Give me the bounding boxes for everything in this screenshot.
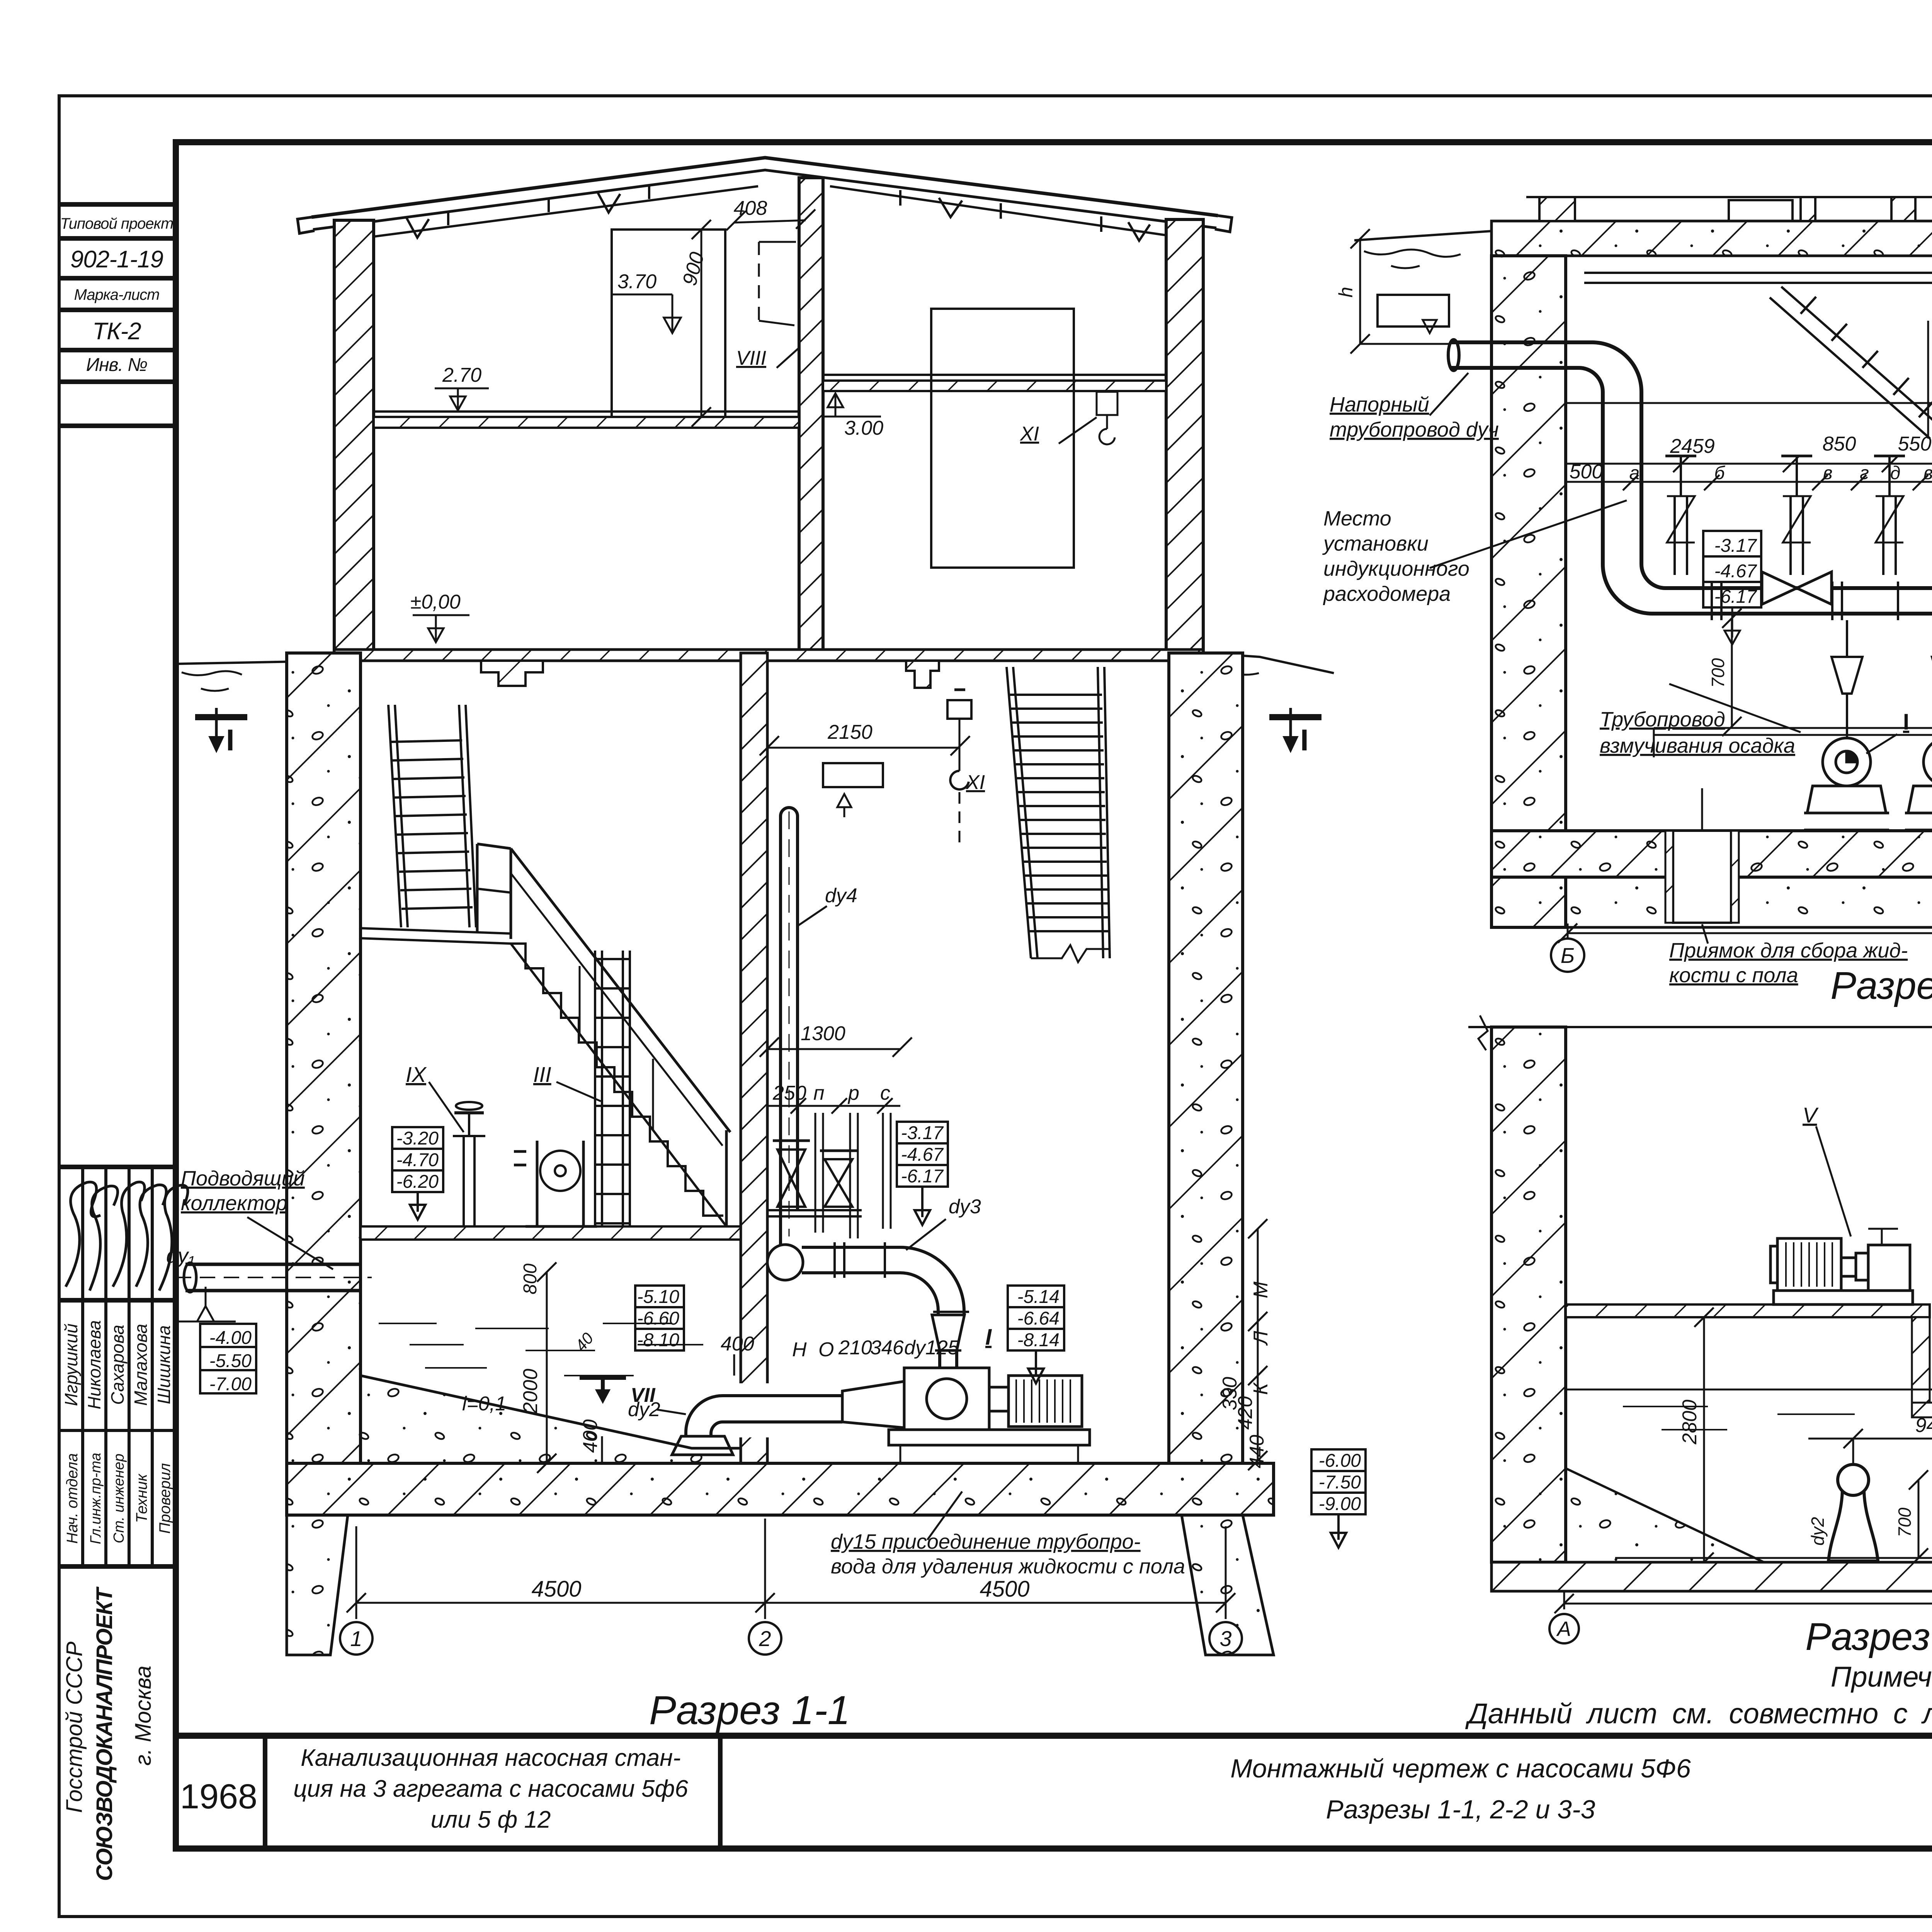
elevation boxes section 1-1: [200, 1122, 1366, 1548]
svg-text:Разрез 3-3: Разрез 3-3: [1805, 1615, 1932, 1658]
pipe to pump: [938, 1350, 941, 1368]
svg-text:dy3: dy3: [949, 1196, 981, 1218]
arrows below boxes: [417, 1192, 419, 1212]
svg-text:±0,00: ±0,00: [410, 591, 461, 613]
svg-text:индукционного: индукционного: [1323, 557, 1469, 580]
svg-text:400: 400: [721, 1333, 754, 1355]
svg-text:Шишкина: Шишкина: [154, 1325, 174, 1404]
top break line: [1468, 1026, 1932, 1028]
dy15 note: [831, 1530, 1185, 1578]
svg-text:1300: 1300: [801, 1022, 845, 1045]
dy4 vertical pipe: [767, 808, 969, 1368]
svg-text:СОЮЗВОДОКАНАЛПРОЕКТ: СОЮЗВОДОКАНАЛПРОЕКТ: [92, 1586, 117, 1881]
svg-text:р: р: [847, 1082, 859, 1104]
stirring pipe: [1654, 728, 1932, 757]
9000 + grid: [1549, 1591, 1932, 1643]
svg-text:700: 700: [1895, 1507, 1915, 1537]
discharge elbow circle: [767, 1245, 803, 1280]
±0.00 flag: [413, 614, 469, 616]
roof bottom chord: [336, 186, 758, 241]
gate valves on risers: [777, 1150, 805, 1179]
flange ticks on manifold: [1712, 582, 1932, 620]
svg-text:Разрез 1-1: Разрез 1-1: [649, 1688, 850, 1733]
svg-text:Приямок для сбора жид-: Приямок для сбора жид-: [1669, 939, 1908, 962]
3.00 flag up: [823, 416, 881, 418]
beams under slab: [481, 661, 543, 686]
-4.00 flag: [197, 1306, 214, 1321]
svg-text:-3.20: -3.20: [396, 1128, 439, 1149]
h dims sides: [1350, 229, 1932, 354]
svg-text:946: 946: [1915, 1414, 1932, 1437]
svg-text:Игрушкий: Игрушкий: [61, 1323, 81, 1406]
risers with gate valves: [1665, 456, 1932, 575]
XI hoist right room: [1097, 392, 1117, 415]
svg-text:п: п: [813, 1082, 825, 1104]
svg-text:XI: XI: [966, 771, 985, 794]
flight B railing: [511, 849, 730, 1132]
svg-text:IX: IX: [406, 1062, 427, 1087]
svg-text:Малахова: Малахова: [131, 1324, 151, 1406]
risers п р с: [815, 1113, 816, 1233]
floor slab: [1492, 1562, 1932, 1591]
VII mark: [601, 1379, 605, 1395]
roof truss V marks: [406, 216, 429, 238]
svg-text:Техник: Техник: [133, 1473, 150, 1523]
svg-text:dy125: dy125: [904, 1337, 959, 1359]
svg-text:420: 420: [1234, 1396, 1257, 1430]
svg-text:Место: Место: [1323, 507, 1391, 530]
labels I I II: [1903, 694, 1932, 735]
dims near pumps: [1722, 609, 1932, 831]
svg-text:взмучивания осадка: взмучивания осадка: [1600, 734, 1795, 757]
motor unit V: [1766, 1126, 1920, 1304]
svg-text:г. Москва: г. Москва: [131, 1665, 156, 1765]
pressure pipework (thick): [1448, 340, 1932, 614]
svg-text:-5.10: -5.10: [637, 1287, 680, 1307]
svg-text:-7.00: -7.00: [209, 1374, 252, 1395]
svg-text:Трубопровод: Трубопровод: [1600, 708, 1725, 731]
section mark I right: [1289, 708, 1292, 750]
VIII leader: [777, 348, 799, 368]
svg-text:-3.17: -3.17: [901, 1123, 944, 1143]
svg-text:I: I: [1903, 709, 1909, 735]
inlet pipe Подводящий коллектор: [176, 1263, 372, 1292]
svg-text:850: 850: [1823, 433, 1856, 455]
ground slab: [334, 650, 1203, 661]
wall footing wedges: [287, 1515, 348, 1655]
svg-text:А: А: [1556, 1617, 1571, 1641]
right basement wall: [1169, 653, 1243, 1515]
svg-text:Разрезы 1-1, 2-2 и 3-3: Разрезы 1-1, 2-2 и 3-3: [1326, 1795, 1595, 1824]
svg-text:-6.17: -6.17: [901, 1166, 944, 1187]
right wall: [1166, 219, 1203, 651]
top slab: [1354, 197, 1932, 268]
svg-text:700: 700: [1708, 658, 1728, 688]
floor + slab: [1492, 831, 1932, 927]
cable drum: [536, 1141, 539, 1226]
right room stair (frontal): [1007, 667, 1110, 962]
eaves: [298, 217, 315, 233]
svg-text:Л: Л: [1250, 1331, 1272, 1346]
svg-text:4500: 4500: [980, 1577, 1029, 1602]
900 dim: [701, 230, 702, 417]
central wall: [741, 653, 767, 1463]
structures above slab: [1526, 196, 1932, 198]
svg-text:-4.67: -4.67: [1714, 561, 1758, 582]
svg-text:250: 250: [772, 1082, 806, 1104]
svg-text:I: I: [985, 1325, 992, 1350]
grade line left: [177, 653, 334, 664]
bell intakes: [1828, 1464, 1932, 1561]
small service platform: [767, 1209, 862, 1211]
2800 vert: [1703, 1317, 1705, 1562]
landing railing: [476, 844, 479, 931]
svg-text:4500: 4500: [531, 1577, 581, 1602]
svg-text:К: К: [1250, 1382, 1272, 1395]
svg-text:Данный лист см. совместно с: Данный лист см. совместно с листом ТК-1: [1465, 1697, 1932, 1730]
svg-text:dy2: dy2: [628, 1398, 660, 1421]
bottom slab: [287, 1463, 1274, 1515]
svg-text:расходомера: расходомера: [1323, 582, 1451, 605]
250 п р с dim: [767, 1105, 900, 1107]
pipe pass through central wall: [736, 1383, 772, 1437]
svg-text:-5.50: -5.50: [209, 1351, 252, 1371]
window right room: [931, 309, 1074, 568]
1300 dim: [767, 1048, 900, 1050]
side slopes: [1566, 1468, 1932, 1562]
flanges: [833, 1242, 836, 1278]
svg-text:-6.20: -6.20: [396, 1172, 439, 1192]
svg-text:i=0,1: i=0,1: [462, 1393, 506, 1415]
landing: [359, 928, 511, 944]
svg-text:1: 1: [350, 1626, 362, 1651]
svg-text:-8.14: -8.14: [1017, 1330, 1060, 1350]
svg-text:3.70: 3.70: [617, 270, 656, 293]
elevation box -3.17: [1703, 531, 1761, 645]
svg-text:кости с пола: кости с пола: [1669, 964, 1798, 987]
notes above title block: [1465, 1661, 1932, 1730]
svg-text:Монтажный чертеж с насосами 5: Монтажный чертеж с насосами 5Ф6: [1230, 1754, 1691, 1783]
svg-text:а: а: [1629, 463, 1640, 483]
grade line right: [1203, 653, 1334, 673]
svg-text:Напорный: Напорный: [1330, 393, 1429, 416]
flight B steps: [511, 944, 723, 1216]
svg-text:550: 550: [1898, 433, 1932, 455]
svg-text:408: 408: [734, 197, 767, 219]
dimension marks above ground: [413, 209, 1117, 642]
platform -3.20: [361, 1226, 741, 1240]
sump slope & floor, section 1-1: [287, 1323, 1274, 1515]
svg-text:установки: установки: [1322, 532, 1429, 555]
walls: [1492, 256, 1932, 927]
700 vert: [1918, 1480, 1920, 1558]
monorail + interior top: [1566, 273, 1932, 439]
svg-text:V: V: [1803, 1103, 1819, 1127]
svg-text:XI: XI: [1020, 423, 1039, 445]
400 dims: [733, 1354, 735, 1376]
svg-text:г: г: [1860, 463, 1869, 483]
walls: [1468, 1015, 1932, 1562]
svg-text:-7.50: -7.50: [1319, 1472, 1361, 1493]
svg-text:коллектор: коллектор: [181, 1192, 287, 1215]
svg-text:3: 3: [1219, 1626, 1231, 1651]
svg-text:Проверил: Проверил: [156, 1463, 173, 1534]
svg-text:Госстрой СССР: Госстрой СССР: [62, 1641, 87, 1813]
discharge horizontal from dy4: [802, 1246, 900, 1249]
IX leader: [429, 1082, 464, 1132]
svg-text:-6.17: -6.17: [1714, 587, 1758, 607]
svg-text:Примечания: Примечания: [1831, 1661, 1932, 1693]
svg-text:2.70: 2.70: [442, 364, 481, 386]
side labels: [1322, 343, 1932, 757]
dim rows above: [1566, 457, 1932, 490]
svg-text:в: в: [1823, 463, 1832, 483]
left wall: [334, 220, 374, 651]
2.70 flag: [435, 388, 489, 389]
svg-text:Гл.инж.пр-та: Гл.инж.пр-та: [88, 1453, 104, 1544]
middle wall: [799, 178, 823, 651]
svg-text:902-1-19: 902-1-19: [70, 246, 163, 273]
svg-text:ция на 3 агрегата с насосами 5: ция на 3 агрегата с насосами 5ф6: [293, 1776, 688, 1802]
svg-text:Сахарова: Сахарова: [107, 1325, 128, 1405]
III leader: [556, 1082, 601, 1101]
personnel table (rotated): [59, 1167, 176, 1566]
svg-text:-9.00: -9.00: [1319, 1494, 1361, 1514]
pumps: [1804, 738, 1932, 830]
svg-text:Типовой проект: Типовой проект: [60, 215, 173, 232]
2000 dim: [546, 1272, 548, 1463]
svg-text:dy₁: dy₁: [166, 1244, 195, 1267]
basement: [287, 653, 1274, 1655]
svg-text:2: 2: [759, 1626, 771, 1651]
svg-text:Ст. инженер: Ст. инженер: [111, 1454, 127, 1543]
svg-text:Николаева: Николаева: [84, 1320, 104, 1410]
floor slab right room: [823, 381, 1166, 391]
check valve cone dy125: [932, 1315, 964, 1350]
svg-text:dy2: dy2: [1808, 1517, 1828, 1546]
crane XI, dims in machine hall: [760, 690, 971, 1238]
svg-text:б: б: [1714, 463, 1726, 483]
VIII ventilation shaft next to middle wall: [758, 242, 760, 321]
svg-text:Канализационная насосная стан-: Канализационная насосная стан-: [301, 1745, 681, 1771]
svg-text:210: 210: [838, 1337, 872, 1359]
svg-text:3.00: 3.00: [844, 417, 883, 439]
svg-text:dy15 присоединение трубопро-: dy15 присоединение трубопро-: [831, 1530, 1141, 1553]
svg-text:I: I: [226, 723, 235, 757]
water dashes left chamber: [379, 1323, 437, 1324]
svg-text:-6.00: -6.00: [1319, 1451, 1361, 1471]
svg-text:-8.10: -8.10: [637, 1330, 680, 1350]
svg-text:Нач. отдела: Нач. отдела: [64, 1453, 81, 1544]
svg-text:-6.64: -6.64: [1017, 1308, 1060, 1329]
svg-text:трубопровод dуч: трубопровод dуч: [1330, 418, 1499, 441]
408 dim: [734, 220, 806, 223]
svg-text:-6.60: -6.60: [637, 1308, 680, 1329]
svg-text:2459: 2459: [1670, 435, 1715, 457]
svg-text:I: I: [1300, 723, 1309, 757]
svg-text:-4.00: -4.00: [209, 1328, 252, 1348]
svg-text:или 5 ф 12: или 5 ф 12: [431, 1806, 551, 1833]
svg-text:с: с: [880, 1082, 890, 1104]
svg-text:400: 400: [579, 1419, 602, 1453]
IX valve column: [463, 1136, 465, 1226]
svg-text:1968: 1968: [180, 1777, 257, 1816]
svg-text:Н: Н: [792, 1338, 807, 1361]
ladder III: [594, 951, 596, 1226]
sump: [1665, 788, 1739, 923]
floor slab left room: [374, 417, 799, 428]
water level: [1566, 1389, 1932, 1430]
svg-text:вода для удаления жидкости с: вода для удаления жидкости с пола: [831, 1555, 1185, 1578]
funnels on risers: [1832, 620, 1932, 738]
svg-text:Подводящий: Подводящий: [181, 1167, 305, 1190]
svg-text:Инв. №: Инв. №: [86, 355, 147, 375]
intermediate floor with opening: [1566, 1304, 1932, 1417]
svg-text:М: М: [1250, 1281, 1272, 1298]
Приямок label: [1669, 939, 1908, 987]
suction piping through wall: [672, 1396, 842, 1455]
svg-text:-4.70: -4.70: [396, 1150, 439, 1170]
window left room: [612, 230, 725, 417]
grade lines: [1354, 231, 1492, 240]
svg-text:в: в: [1923, 463, 1932, 483]
svg-text:-3.17: -3.17: [1714, 536, 1758, 556]
svg-text:2000: 2000: [519, 1369, 542, 1414]
svg-text:ТК-2: ТК-2: [92, 318, 141, 345]
roof top chord: [311, 158, 1218, 217]
svg-text:Марка-лист: Марка-лист: [74, 286, 160, 303]
svg-text:2800: 2800: [1679, 1400, 1701, 1445]
svg-text:-4.67: -4.67: [901, 1145, 944, 1165]
section mark I left: [215, 708, 218, 750]
svg-text:800: 800: [520, 1264, 541, 1294]
left basement wall: [287, 653, 361, 1515]
dim rows: [1694, 1308, 1932, 1572]
svg-text:О: О: [818, 1338, 834, 1361]
svg-text:д: д: [1890, 463, 1901, 483]
svg-text:Б: Б: [1561, 943, 1575, 968]
pit below opening: [1912, 1317, 1930, 1403]
dy4/dy3 labels and dims: [537, 906, 946, 1473]
svg-text:dy4: dy4: [825, 884, 857, 907]
9000 dim + grid: [1551, 923, 1932, 972]
manifold valves: [1762, 572, 1932, 604]
svg-text:346: 346: [870, 1337, 904, 1359]
svg-text:-5.14: -5.14: [1017, 1287, 1060, 1307]
svg-text:III: III: [533, 1062, 551, 1087]
svg-text:Разрез 2-2: Разрез 2-2: [1830, 964, 1932, 1007]
grid dims section 1-1: [340, 1519, 1242, 1655]
center pipe + floor pipe: [1615, 1417, 1932, 1563]
pump unit: [842, 1368, 1090, 1463]
svg-text:2150: 2150: [827, 721, 872, 743]
dy2 arrow: [657, 1410, 686, 1414]
roof truss ticks: [447, 211, 449, 225]
svg-text:VIII: VIII: [736, 347, 766, 369]
3.70 flag: [611, 294, 672, 296]
stair: [1770, 298, 1930, 439]
stairs flight A (wide, frontal view): [388, 705, 401, 927]
svg-text:h: h: [1335, 287, 1357, 298]
svg-text:500: 500: [1570, 461, 1603, 483]
